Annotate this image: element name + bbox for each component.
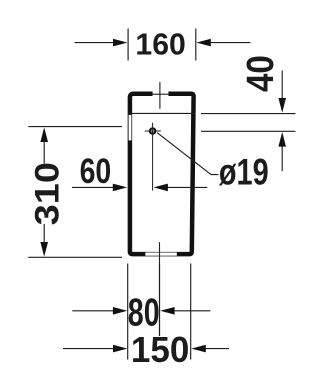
- dim 80 tail left: [72, 310, 113, 312]
- dim 160 ext right: [195, 29, 197, 61]
- dim 60 tail right: [168, 186, 208, 188]
- dim 150 tail right: [205, 348, 229, 350]
- dim 40 tail top: [281, 71, 283, 98]
- dim 310 line lower: [43, 224, 45, 242]
- dim 160 arrow left: [113, 39, 127, 47]
- dim 150 tail left: [63, 348, 113, 350]
- svg-text:310: 310: [27, 162, 66, 225]
- left wall notch (white): [129, 115, 132, 140]
- bottom ext middle: [159, 264, 161, 337]
- dim 310 arrow up: [40, 127, 48, 142]
- dim 40 arrow down: [278, 98, 286, 113]
- cistern tank outline: [130, 94, 194, 254]
- svg-text:ø19: ø19: [219, 152, 269, 193]
- dim 60 arrow left: [113, 184, 127, 192]
- bottom ext right: [190, 264, 192, 360]
- centerline top: [159, 82, 161, 109]
- hole crosshair vertical + extension: [152, 123, 154, 191]
- centerline bottom: [159, 242, 161, 336]
- dim 310 ext top: [28, 126, 122, 128]
- hole crosshair horizontal: [145, 130, 161, 132]
- dim 40 ext line lower (hole level): [201, 130, 296, 132]
- dim 310 ext bottom: [28, 256, 122, 258]
- dim 160 tail left: [75, 42, 114, 44]
- svg-text:150: 150: [131, 329, 189, 370]
- dim 150 arrow left: [113, 345, 127, 353]
- svg-text:80: 80: [128, 291, 160, 334]
- dim 150 arrow right: [191, 345, 205, 353]
- dim 160 arrow right: [196, 39, 210, 47]
- lid seam line: [128, 112, 195, 114]
- dim 40 ext line upper (seam level): [201, 113, 296, 115]
- dim 310 line upper: [43, 142, 45, 164]
- svg-text:160: 160: [135, 28, 185, 61]
- dim 80 arrow right: [160, 307, 174, 315]
- dim 60 tail left: [72, 186, 113, 188]
- dim 160 ext left: [127, 29, 129, 61]
- top band gap (white): [153, 91, 169, 96]
- dim 310 arrow down: [40, 242, 48, 257]
- dim 160 tail right: [210, 42, 250, 44]
- dim 40 arrow up: [278, 132, 286, 147]
- bottom band gap (white): [145, 253, 177, 256]
- leader line to ø19: [157, 133, 218, 175]
- dim 80 tail right: [174, 310, 210, 312]
- dim 40 tail bottom: [281, 146, 283, 171]
- dim 80 arrow left: [113, 307, 127, 315]
- svg-text:60: 60: [80, 151, 112, 190]
- dim 60 arrow right: [154, 184, 168, 192]
- hole U1 circle: [150, 128, 155, 133]
- svg-text:40: 40: [239, 55, 282, 92]
- top gap middle line: [153, 93, 169, 95]
- bottom ext left: [127, 264, 129, 360]
